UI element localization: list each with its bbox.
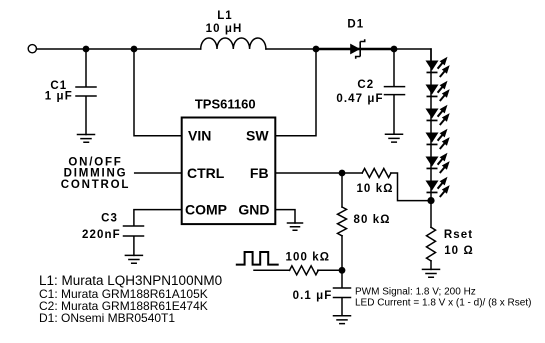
svg-text:COMP: COMP (185, 202, 227, 218)
svg-text:10 kΩ: 10 kΩ (356, 183, 393, 195)
svg-text:SW: SW (246, 128, 269, 144)
svg-text:0.1 μF: 0.1 μF (293, 290, 333, 302)
svg-text:GND: GND (238, 202, 269, 218)
svg-text:10 Ω: 10 Ω (444, 245, 474, 257)
svg-text:Rset: Rset (444, 229, 473, 241)
svg-text:100 kΩ: 100 kΩ (285, 252, 330, 264)
svg-text:CONTROL: CONTROL (61, 179, 130, 191)
svg-text:D1: ONsemi MBR0540T1: D1: ONsemi MBR0540T1 (39, 311, 175, 325)
svg-text:10 μH: 10 μH (206, 23, 243, 35)
svg-text:FB: FB (250, 165, 269, 181)
svg-text:CTRL: CTRL (187, 165, 225, 181)
svg-text:TPS61160: TPS61160 (195, 96, 256, 111)
svg-text:PWM Signal: 1.8 V; 200 Hz: PWM Signal: 1.8 V; 200 Hz (355, 287, 476, 298)
svg-text:220nF: 220nF (82, 229, 121, 241)
svg-text:1 μF: 1 μF (45, 91, 73, 103)
svg-text:L1: L1 (217, 10, 233, 22)
svg-text:C2: C2 (357, 79, 374, 91)
svg-text:DIMMING: DIMMING (64, 168, 128, 180)
svg-text:D1: D1 (347, 18, 364, 30)
svg-text:VIN: VIN (188, 128, 211, 144)
svg-text:L1: Murata LQH3NPN100NM0: L1: Murata LQH3NPN100NM0 (39, 273, 222, 288)
svg-text:LED Current = 1.8 V x (1 - d)/: LED Current = 1.8 V x (1 - d)/ (8 x Rset… (355, 298, 531, 309)
svg-text:C3: C3 (101, 213, 118, 225)
svg-text:80 kΩ: 80 kΩ (354, 214, 391, 226)
svg-text:0.47 μF: 0.47 μF (336, 93, 383, 105)
